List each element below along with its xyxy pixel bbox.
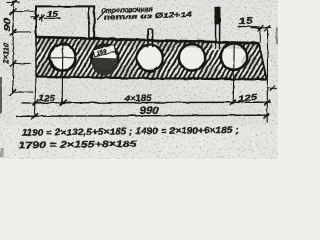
svg-text:2×110: 2×110	[4, 43, 11, 65]
svg-text:125: 125	[39, 94, 56, 103]
svg-text:90: 90	[3, 17, 12, 32]
svg-text:990: 990	[140, 105, 160, 117]
svg-text:15: 15	[238, 15, 253, 26]
svg-text:4×185: 4×185	[123, 93, 152, 103]
svg-text:15: 15	[47, 9, 59, 19]
svg-text:1790 = 2×155+8×185: 1790 = 2×155+8×185	[18, 139, 137, 151]
